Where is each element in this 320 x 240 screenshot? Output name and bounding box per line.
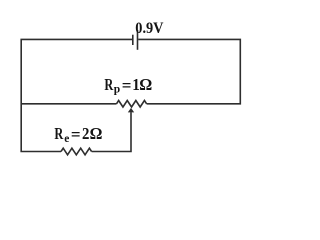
battery V1 long plate bbox=[137, 30, 139, 50]
svg-text:=: = bbox=[122, 76, 132, 95]
resistor Rp zigzag bbox=[117, 101, 147, 108]
wire right loop (top-right, right side, middle-right) bbox=[138, 39, 240, 103]
svg-text:0.9V: 0.9V bbox=[135, 20, 164, 37]
svg-text:Ω: Ω bbox=[90, 124, 103, 143]
svg-text:Ω: Ω bbox=[139, 75, 152, 94]
wire middle-left segment bbox=[21, 103, 116, 105]
svg-text:e: e bbox=[64, 133, 69, 145]
label Re = 2ohm bbox=[54, 124, 102, 145]
svg-text:R: R bbox=[104, 75, 113, 94]
label Rp = 1ohm bbox=[104, 75, 152, 96]
svg-text:=: = bbox=[71, 125, 81, 144]
wire bottom-right segment and wiper vertical bbox=[92, 112, 131, 151]
wiper arrowhead bbox=[128, 108, 134, 113]
resistor Re zigzag bbox=[61, 148, 92, 155]
svg-text:R: R bbox=[54, 124, 63, 143]
battery V1 short plate bbox=[132, 35, 134, 45]
svg-text:2: 2 bbox=[82, 124, 89, 143]
svg-text:p: p bbox=[114, 84, 120, 96]
wire left loop (top-left, left side, bottom-left) bbox=[21, 39, 132, 151]
